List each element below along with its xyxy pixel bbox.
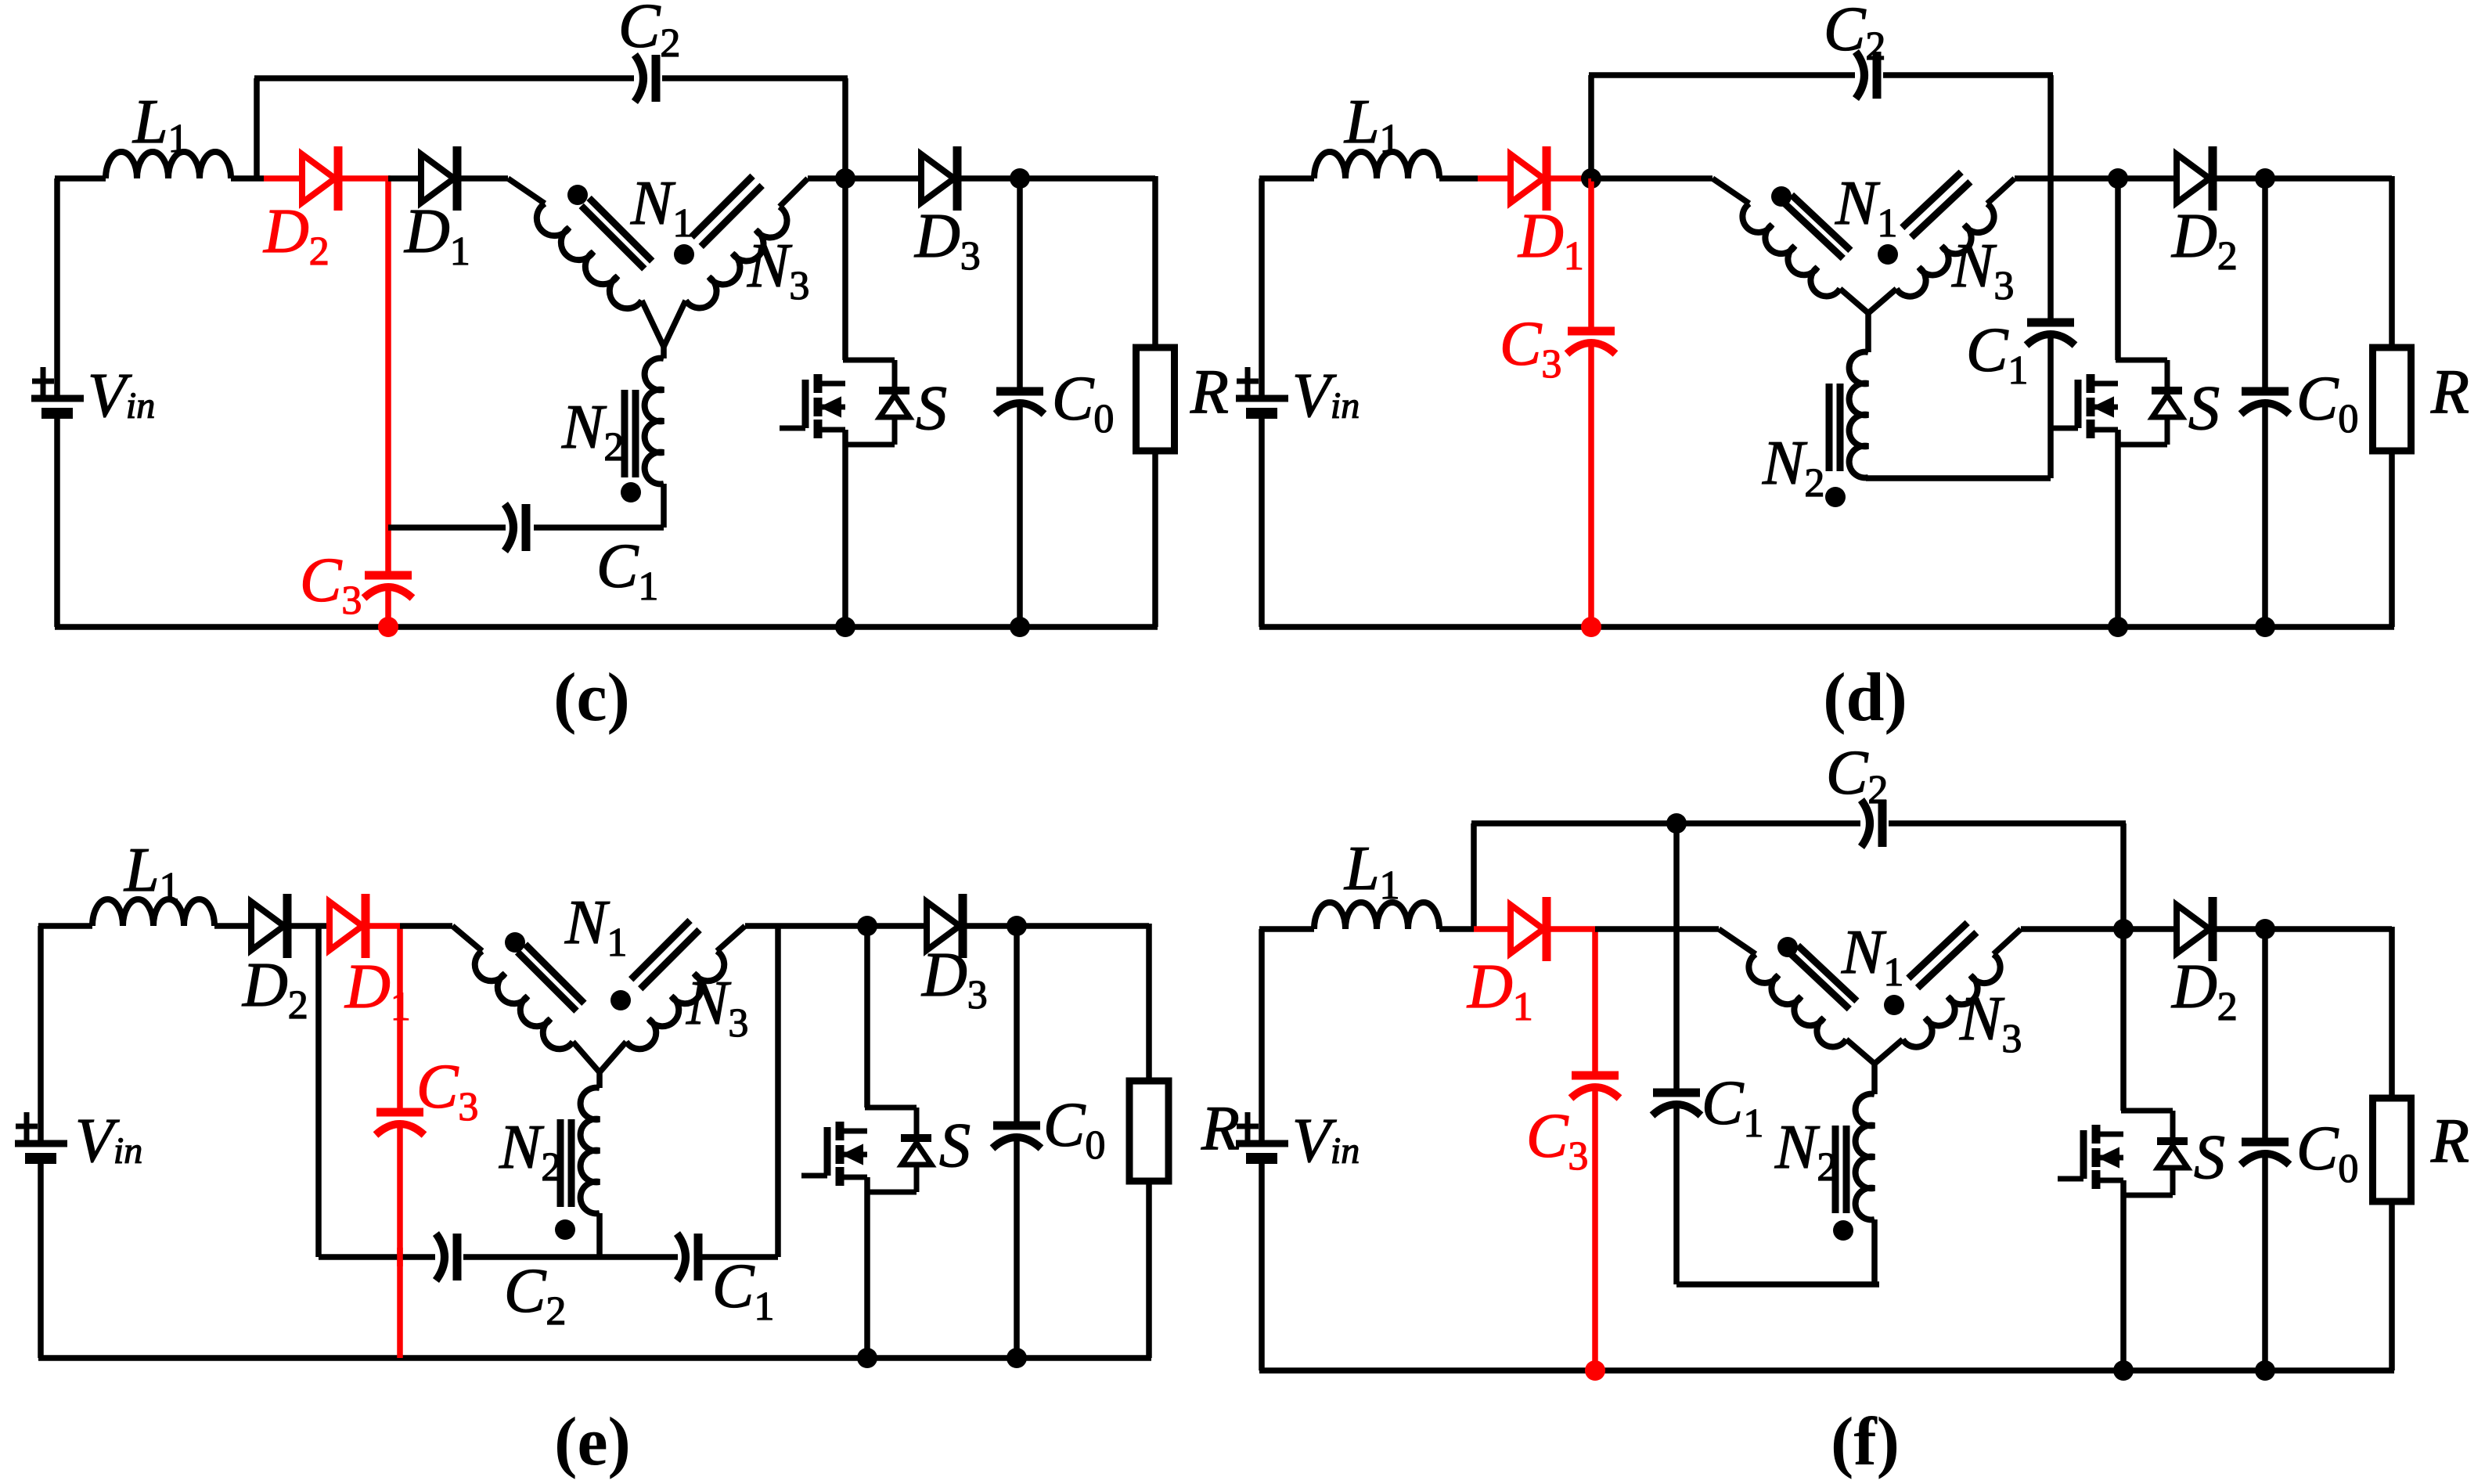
capacitor C2 (d): [1856, 52, 1864, 99]
core lines N2 (e): [568, 1119, 575, 1207]
resistor R (c): [1136, 348, 1175, 451]
wire: (d) S source: [2115, 430, 2121, 627]
winding N1 (c): [537, 204, 642, 308]
wire: (c) node to D1: [388, 175, 421, 182]
wire: (f) left rail bottom segment: [1259, 1164, 1265, 1371]
resistor R (e): [1129, 1081, 1169, 1181]
wire: (e) inner rail left: [319, 1254, 435, 1260]
wire: (f) C1 vertical top: [1673, 823, 1680, 1093]
inductor L1 (d): [1314, 152, 1439, 178]
wire: (c) center stub to N3: [664, 301, 686, 347]
wire: (c) C2 right vertical: [842, 78, 848, 178]
junction dot C0-bottom (c): [1010, 617, 1030, 637]
diode D1 (f): [1511, 905, 1543, 953]
core lines N2 (d): [1837, 384, 1844, 471]
junction dot C0 node (f): [2255, 919, 2275, 939]
wire: (c) N2 stub: [661, 344, 667, 358]
junction dot S node (c): [835, 168, 855, 189]
capacitor C0 (e): [993, 1122, 1040, 1130]
wire: (f) N2 stub: [1871, 1061, 1878, 1094]
wire: (f) D1 to red vertical: [1547, 926, 1595, 932]
wire: (f) node to diagonal: [1595, 926, 1719, 932]
polarity dot N2 (e): [555, 1219, 575, 1240]
wire: (e) rail node to D3: [867, 923, 927, 929]
polarity dot N1 (e): [505, 932, 525, 953]
junction dot S-bottom (f): [2113, 1360, 2134, 1381]
winding N1 (e): [475, 951, 573, 1049]
battery Vin (f): [1236, 1140, 1288, 1147]
capacitor C3 (c): [365, 571, 412, 580]
wire: (d) C1 to inner rail: [2047, 337, 2054, 478]
wire: (f) D2 to C0 node: [2213, 926, 2265, 932]
wire: (e) N2 bottom: [596, 1213, 603, 1257]
svg-text:S: S: [916, 374, 947, 443]
wire: (e) inner rail middle: [463, 1254, 678, 1260]
wire: (c) bottom rail: [55, 624, 1158, 630]
wire: (c) diagonal into N1: [508, 178, 545, 204]
wire: (c) C2 top rail right: [662, 75, 848, 81]
svg-text:(c): (c): [553, 660, 630, 736]
svg-text:R: R: [1201, 1094, 1240, 1163]
winding N2 (e): [581, 1088, 600, 1214]
wire: (d) D1 to node: [1547, 175, 1591, 182]
wire: (f) C2 right vertical: [2120, 823, 2127, 929]
wire: (d) diagonal into N1: [1712, 178, 1749, 204]
polarity dot N3 (e): [610, 990, 631, 1010]
winding N3 (f): [1903, 954, 2001, 1046]
wire: (f) vertical junction to C2 rail: [1471, 823, 1477, 929]
wire: (e) D1 to red vertical: [366, 923, 400, 929]
wire: (e) vertical junction to inner rail: [315, 926, 322, 1257]
core lines N1 (d): [1784, 203, 1842, 258]
wire: (d) N2 stub: [1865, 311, 1871, 352]
inductor L1 (c): [106, 152, 231, 178]
wire: (f) C2 top rail right: [1889, 820, 2126, 827]
wire: (f) R branch bottom: [2389, 1201, 2395, 1371]
diode D2 (d): [2177, 154, 2209, 203]
wire: (d) R branch bottom: [2389, 451, 2395, 627]
wire: (c) S source: [842, 430, 848, 627]
wire: (c) N3 diagonal to rail: [780, 178, 808, 207]
wire: (c) S drain: [842, 178, 848, 360]
junction dot C3-bottom (f): [1585, 1360, 1605, 1381]
polarity dot N2 (d): [1825, 487, 1846, 507]
wire: (f) N1 stub to center: [1846, 1039, 1875, 1064]
wire: (e) diagonal into N1: [452, 926, 482, 951]
diode D3 (e): [927, 902, 960, 950]
wire: (e) main rail left: [38, 923, 92, 929]
transistor S (f): [2092, 1125, 2101, 1144]
inductor L1 (f): [1314, 902, 1439, 929]
capacitor C0 (d): [2242, 387, 2289, 396]
junction dot C3-bottom (d): [1581, 617, 1601, 637]
wire: (d) N3 diagonal to rail: [1987, 178, 2015, 204]
wire: (c) C1 wire left: [388, 524, 506, 531]
svg-text:R: R: [2430, 1107, 2469, 1176]
wire: (c) C2 left vertical: [254, 78, 260, 178]
wire: (c) main rail left: [55, 175, 106, 182]
wire: (c) C0 branch top: [1017, 178, 1023, 391]
wire: (c) rail to R corner: [1020, 175, 1155, 182]
wire: (c) rail L1 to D2: [231, 175, 264, 182]
wire: (d) N3 to S node: [2015, 175, 2118, 182]
wire: (d) L1 to D1: [1439, 175, 1478, 182]
wire: (c) C1 wire right: [534, 524, 664, 531]
junction dot S node (e): [857, 916, 877, 936]
wire: (e) left rail bottom segment: [38, 1164, 44, 1358]
wire: (d) C0 branch bottom: [2262, 405, 2268, 627]
wire: (f) rail to R corner: [2265, 926, 2392, 932]
junction dot C0-bottom (d): [2255, 617, 2275, 637]
core lines N2 (c): [632, 390, 639, 477]
wire: (c) N1 stub to center: [642, 301, 664, 347]
wire: (f) S source: [2120, 1180, 2127, 1371]
svg-text:(d): (d): [1823, 660, 1907, 736]
junction dot C3-bottom (c): [378, 617, 398, 637]
wire: (f) center stub to N3: [1875, 1039, 1903, 1064]
diode D1 (d): [1511, 154, 1543, 203]
wire: (e) N3 to S node: [745, 923, 867, 929]
capacitor C3 (f): [1572, 1072, 1619, 1080]
wire: (d) inner bottom rail: [1866, 475, 2051, 481]
polarity dot N3 (d): [1878, 244, 1898, 265]
junction dot C0 node (e): [1007, 916, 1027, 936]
wire: (f) rail node to D2: [2123, 926, 2177, 932]
svg-text:S: S: [2194, 1123, 2225, 1192]
core lines N1 (e): [517, 952, 576, 1010]
capacitor C0 (c): [996, 387, 1043, 396]
wire: (f) C2 top rail left: [1471, 820, 1676, 827]
wire: (c) rail node to D3: [845, 175, 921, 182]
wire: (e) left rail top segment: [38, 926, 44, 1141]
polarity dot N2 (c): [621, 482, 641, 502]
diode D2 (c): [302, 154, 335, 203]
wire: (c) D3 to C0 node: [958, 175, 1020, 182]
junction dot S-bottom (d): [2108, 617, 2128, 637]
capacitor C2 (e): [436, 1234, 445, 1280]
wire: (c) C2 top rail left: [254, 75, 634, 81]
diode D2 (e): [251, 902, 284, 950]
winding N2 (f): [1856, 1094, 1875, 1220]
wire: (d) vertical to C2: [1588, 75, 1594, 178]
wire: (d) bottom rail: [1259, 624, 2394, 630]
wire: (f) red vertical top: [1592, 929, 1598, 1075]
wire: (c) red vertical C3 to bottom: [385, 589, 391, 627]
core lines N3 (d): [1911, 182, 1970, 237]
wire: (e) C0 branch bottom: [1014, 1140, 1020, 1358]
core lines N3 (f): [1918, 932, 1976, 988]
battery Vin (e): [15, 1140, 67, 1147]
wire: (d) N1 stub to center: [1840, 289, 1868, 313]
wire: (e) node to diagonal: [400, 923, 452, 929]
transistor S (d): [2087, 374, 2095, 393]
battery Vin (c): [31, 395, 84, 402]
junction dot C0 node (d): [2255, 168, 2275, 189]
wire: (f) S drain: [2120, 929, 2127, 1111]
capacitor C0 (f): [2242, 1138, 2289, 1147]
wire: (d) center stub to N3: [1868, 289, 1896, 313]
junction dot S node (d): [2108, 168, 2128, 189]
battery Vin (d): [1236, 395, 1288, 402]
wire: (f) R branch top: [2389, 927, 2395, 1098]
capacitor C2 (f): [1861, 800, 1870, 847]
polarity dot N1 (f): [1777, 937, 1798, 957]
wire: (e) red vertical top: [397, 926, 403, 1112]
junction dot S-bottom (e): [857, 1348, 877, 1368]
polarity dot N2 (f): [1833, 1220, 1853, 1241]
wire: (f) diagonal into N1: [1719, 929, 1756, 954]
wire: (e) D3 to C0 node: [963, 923, 1017, 929]
wire: (e) rail to R corner: [1017, 923, 1149, 929]
winding N2 (d): [1849, 352, 1868, 478]
resistor R (f): [2373, 1098, 2411, 1201]
wire: (f) N3 diagonal to rail: [1993, 929, 2021, 954]
svg-text:S: S: [2188, 374, 2220, 443]
diode D3 (c): [921, 154, 954, 203]
polarity dot N3 (c): [674, 244, 694, 265]
junction dot D1 node (d): [1581, 168, 1601, 189]
winding N3 (c): [686, 207, 787, 308]
wire: (c) C0 branch bottom: [1017, 405, 1023, 627]
junction dot C0-bottom (e): [1007, 1348, 1027, 1368]
wire: (c) R branch top: [1152, 176, 1158, 348]
wire: (e) N3 diagonal to rail: [717, 926, 745, 951]
wire: (d) red vertical node-C3: [1588, 178, 1594, 331]
wire: (e) red vertical crossing overlay: [397, 1248, 403, 1266]
wire: (f) left rail top segment: [1259, 929, 1265, 1141]
wire: (d) node to diagonal: [1591, 175, 1712, 182]
wire: (f) main rail left: [1259, 926, 1314, 932]
wire: (c) D1 to N1: [457, 175, 508, 182]
wire: (f) junction to D1: [1474, 926, 1511, 932]
diode D2 (f): [2177, 905, 2209, 953]
capacitor C1 (d): [2027, 319, 2074, 327]
winding N3 (e): [626, 951, 724, 1049]
wire: (d) C2 top rail right: [1883, 72, 2053, 78]
core lines N3 (e): [640, 930, 699, 989]
wire: (d) D2 to C0 node: [2213, 175, 2265, 182]
wire: (d) C2 right vertical down to C1: [2047, 75, 2054, 322]
wire: (f) inner bottom rail: [1676, 1281, 1879, 1288]
svg-text:(e): (e): [554, 1404, 631, 1480]
resistor R (d): [2373, 348, 2411, 451]
transistor S (e): [836, 1122, 845, 1140]
capacitor C2 (c): [635, 55, 643, 102]
capacitor C1 (f): [1653, 1089, 1700, 1097]
wire: (d) left rail bottom segment: [1259, 419, 1265, 627]
wire: (d) left rail top segment: [1259, 178, 1265, 396]
winding N2 (c): [645, 358, 664, 484]
junction dot C0-bottom (f): [2255, 1360, 2275, 1381]
wire: (e) N2 stub: [596, 1070, 603, 1088]
wire: (c) left rail bottom segment: [54, 419, 60, 627]
diode D1 (c): [421, 154, 454, 203]
wire: (d) red vertical C3-bottom: [1588, 345, 1594, 627]
svg-text:S: S: [939, 1111, 971, 1180]
capacitor C3 (e): [376, 1108, 423, 1117]
wire: (f) C1 vertical bottom: [1673, 1107, 1680, 1284]
wire: (d) C0 branch top: [2262, 178, 2268, 391]
core lines N1 (f): [1790, 953, 1849, 1009]
capacitor C1 (c): [505, 504, 513, 551]
polarity dot N1 (d): [1771, 186, 1792, 207]
core lines N2 (f): [1843, 1126, 1850, 1213]
polarity dot N3 (f): [1884, 995, 1904, 1015]
capacitor C3 (d): [1568, 327, 1615, 336]
wire: (d) R branch top: [2389, 176, 2395, 348]
capacitor C1 (e): [677, 1234, 686, 1280]
wire: (e) R branch bottom: [1146, 1181, 1152, 1358]
wire: (c) N3 to node: [808, 175, 845, 182]
wire: (d) main rail left: [1259, 175, 1314, 182]
wire: (f) C0 branch top: [2262, 929, 2268, 1142]
wire: (c) red vertical D2-C3: [385, 178, 391, 575]
wire: (e) vertical rail to C1: [775, 926, 781, 1257]
wire: (f) L1 to junction: [1439, 926, 1474, 932]
wire: (d) C2 top rail left: [1589, 72, 1855, 78]
wire: (d) rail to R corner: [2265, 175, 2392, 182]
svg-text:R: R: [1190, 358, 1229, 427]
wire: (e) S source: [864, 1177, 870, 1358]
junction dot C2-C1 (f): [1666, 813, 1687, 834]
diode D1 (e): [330, 902, 362, 950]
junction dot S-bottom (c): [835, 617, 855, 637]
wire: (e) inner rail right: [700, 1254, 778, 1260]
wire: (f) N3 to S node: [2021, 926, 2123, 932]
winding N3 (d): [1896, 204, 1994, 296]
wire: (d) S drain: [2115, 178, 2121, 360]
inductor L1 (e): [92, 899, 214, 926]
wire: (c) left rail top segment: [54, 178, 60, 396]
wire: (e) red vertical bottom: [397, 1126, 403, 1358]
wire: (f) C0 branch bottom: [2262, 1156, 2268, 1371]
wire: (e) N1 stub to center: [573, 1042, 600, 1072]
core lines N3 (c): [701, 185, 762, 247]
wire: (e) R branch top: [1146, 924, 1152, 1081]
wire: (c) R branch bottom: [1152, 451, 1158, 627]
wire: (e) D2 to junction: [289, 923, 330, 929]
wire: (e) bottom rail: [38, 1355, 1151, 1361]
svg-text:R: R: [2430, 358, 2469, 427]
wire: (f) C2 top rail middle: [1676, 820, 1860, 827]
wire: (e) center stub to N3: [600, 1042, 626, 1072]
wire: (f) N2 bottom: [1871, 1219, 1878, 1284]
wire: (f) bottom rail: [1259, 1367, 2394, 1374]
wire: (f) red vertical bottom: [1592, 1090, 1598, 1371]
wire: (e) C0 branch top: [1014, 926, 1020, 1126]
winding N1 (d): [1742, 204, 1840, 296]
junction dot S node (f): [2113, 919, 2134, 939]
polarity dot N1 (c): [567, 185, 588, 205]
wire: (e) S drain: [864, 926, 870, 1108]
winding N1 (f): [1749, 954, 1846, 1046]
core lines N1 (c): [582, 206, 645, 269]
transistor S (c): [814, 374, 823, 393]
wire: (c) N2 bottom: [661, 484, 667, 528]
wire: (d) rail node to D2: [2118, 175, 2177, 182]
wire: (c) D2 to node: [339, 175, 391, 182]
wire: (e) L1 to D2: [214, 923, 251, 929]
svg-text:(f): (f): [1831, 1404, 1900, 1480]
junction dot C0 node (c): [1010, 168, 1030, 189]
